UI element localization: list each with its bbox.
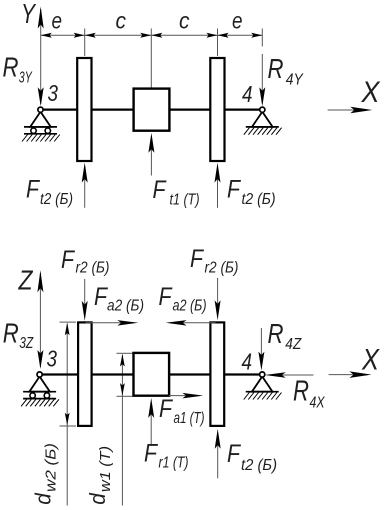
svg-text:4X: 4X bbox=[310, 394, 326, 411]
svg-text:a1 (Т): a1 (Т) bbox=[174, 410, 205, 427]
svg-text:F: F bbox=[61, 246, 75, 274]
svg-text:F: F bbox=[26, 176, 40, 204]
svg-text:F: F bbox=[144, 440, 158, 468]
svg-text:3: 3 bbox=[48, 80, 59, 106]
svg-text:F: F bbox=[159, 283, 173, 311]
svg-text:r2 (Б): r2 (Б) bbox=[205, 260, 239, 277]
svg-text:R: R bbox=[3, 318, 19, 349]
svg-text:F: F bbox=[190, 245, 204, 273]
svg-text:3: 3 bbox=[47, 346, 58, 372]
svg-text:X: X bbox=[361, 344, 380, 377]
svg-text:Y: Y bbox=[21, 0, 37, 29]
svg-text:d: d bbox=[31, 493, 56, 505]
svg-text:d: d bbox=[85, 493, 110, 505]
svg-text:F: F bbox=[227, 440, 241, 468]
svg-text:w1 (Т): w1 (Т) bbox=[97, 446, 114, 492]
svg-text:t2 (Б): t2 (Б) bbox=[242, 191, 276, 208]
svg-text:e: e bbox=[52, 7, 63, 33]
svg-text:w2 (Б): w2 (Б) bbox=[42, 443, 59, 492]
svg-text:4: 4 bbox=[242, 349, 253, 375]
svg-text:t1 (Т): t1 (Т) bbox=[170, 192, 200, 209]
svg-text:e: e bbox=[232, 7, 243, 33]
svg-text:a2 (Б): a2 (Б) bbox=[107, 298, 144, 315]
svg-text:3Z: 3Z bbox=[19, 335, 34, 352]
svg-text:R: R bbox=[3, 52, 19, 83]
svg-text:R: R bbox=[268, 53, 284, 84]
svg-text:Z: Z bbox=[18, 265, 34, 296]
svg-text:F: F bbox=[159, 395, 173, 423]
svg-text:4: 4 bbox=[242, 81, 253, 107]
svg-text:t2 (Б): t2 (Б) bbox=[241, 457, 277, 474]
svg-text:F: F bbox=[153, 176, 167, 204]
svg-text:4Z: 4Z bbox=[285, 336, 302, 353]
svg-text:R: R bbox=[268, 318, 284, 349]
svg-text:4Y: 4Y bbox=[286, 72, 304, 89]
svg-text:c: c bbox=[179, 7, 190, 33]
svg-text:X: X bbox=[361, 76, 381, 109]
svg-text:R: R bbox=[293, 376, 309, 408]
svg-text:c: c bbox=[116, 7, 127, 33]
svg-text:F: F bbox=[227, 176, 241, 204]
svg-text:r1 (Т): r1 (Т) bbox=[159, 455, 189, 472]
svg-text:r2 (Б): r2 (Б) bbox=[76, 260, 110, 277]
svg-text:t2 (Б): t2 (Б) bbox=[40, 191, 73, 208]
svg-text:a2 (Б): a2 (Б) bbox=[173, 298, 207, 315]
svg-text:3Y: 3Y bbox=[19, 70, 33, 87]
